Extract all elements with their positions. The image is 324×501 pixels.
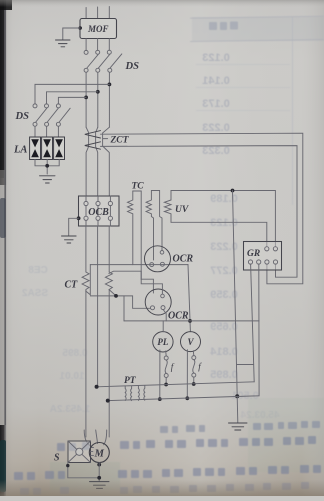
subtle teal tint patches	[248, 398, 324, 472]
wire incoming feeder L1 top	[85, 8, 87, 19]
wire MOF to DS1 pole3	[108, 39, 110, 51]
OCB upper contacts	[84, 201, 113, 205]
disconnect switch DS1 pole1	[84, 50, 98, 72]
lightning arrester LA2	[42, 137, 53, 160]
wire UV bottom to GR	[171, 222, 267, 246]
ZCT label dash	[103, 138, 108, 140]
svg-text:0.814: 0.814	[209, 346, 237, 358]
faint left side bleed	[22, 265, 280, 421]
node arrester bus	[45, 164, 49, 168]
wire L3 into motor	[104, 430, 107, 445]
svg-text:0.323: 0.323	[202, 145, 230, 157]
wire UV top to GR	[171, 191, 275, 247]
wire dot232 down to ground node	[233, 191, 238, 397]
fuse f2	[192, 351, 196, 384]
overcurrent relay OCR1	[145, 246, 171, 272]
CT zigzag on L1	[82, 272, 89, 437]
lightning arrester LA1	[30, 137, 41, 160]
svg-text:UV: UV	[175, 205, 189, 215]
wire CT3 top jog to H_B	[109, 271, 141, 273]
node fuse f1 on bus1	[164, 383, 168, 387]
OCB internal column wires	[86, 196, 110, 226]
disconnect switch DS2 pole2	[45, 104, 59, 126]
svg-text:1.453.2A: 1.453.2A	[50, 404, 91, 415]
wire L2 into motor	[96, 430, 98, 444]
wire ZCT secondary l to GR (bottom)	[101, 146, 298, 278]
CT zigzag on L3	[105, 272, 112, 437]
wire to ground G4	[236, 396, 239, 422]
ZCT chevron lower	[85, 142, 101, 149]
wire S bottom to M ground run	[68, 463, 99, 482]
ground OCB	[62, 236, 77, 243]
mirrored number column	[202, 52, 259, 402]
wire OCR2 bottom-right connector	[163, 310, 166, 321]
wire MOF case to ground	[63, 28, 80, 40]
wire MOF to DS1 pole1	[85, 39, 87, 51]
ZCT chevron upper	[85, 131, 101, 138]
svg-text:0.173: 0.173	[202, 98, 230, 110]
svg-text:0.659: 0.659	[210, 321, 238, 333]
wire PL top stub	[162, 321, 164, 332]
wire DS1 pole1 down	[85, 72, 87, 127]
ground LA	[40, 176, 56, 183]
wire GR relay box	[244, 242, 282, 271]
svg-text:ZCT: ZCT	[110, 136, 130, 146]
wire GR c2 down	[258, 264, 260, 396]
svg-text:V: V	[187, 337, 194, 347]
node bus1 at L2	[95, 385, 99, 389]
svg-text:SSA2: SSA2	[22, 288, 49, 299]
wire OCR1 right connector down to voltmeter	[188, 265, 190, 332]
PT winding w2	[130, 386, 133, 401]
wire incoming feeder L2 top	[97, 7, 99, 19]
PT winding w3	[137, 386, 140, 401]
wire CT3 secondary to bottom loop	[109, 290, 116, 296]
wire branch to DS2 pole3	[58, 97, 86, 104]
svg-text:GR: GR	[247, 249, 260, 259]
wire OCB pole3 down to CT	[108, 226, 110, 272]
GR top contacts	[265, 247, 269, 251]
wire bus1	[97, 382, 255, 387]
wire bus2	[108, 396, 259, 401]
node CT bottom loop	[114, 294, 118, 298]
svg-text:0.189: 0.189	[210, 193, 238, 205]
OCB lower contacts	[84, 216, 113, 220]
node branch L2	[96, 90, 100, 94]
wire OCB pole2 down	[97, 226, 99, 387]
wire DS2 pole2 to arrester	[46, 126, 48, 137]
wire DS1 pole3 down	[108, 72, 110, 127]
wire branch to DS2 pole2	[47, 92, 98, 104]
PT winding w4	[143, 386, 146, 401]
disconnect switch DS1 pole2	[96, 50, 110, 72]
coil C2	[146, 191, 162, 261]
wire OCB pole1 down to CT	[85, 226, 87, 272]
node UV top branch	[231, 189, 235, 193]
switch box S	[68, 441, 91, 463]
svg-text:OCR: OCR	[168, 311, 189, 322]
GR box	[244, 242, 282, 271]
svg-text:TC: TC	[132, 182, 145, 192]
svg-text:0.359: 0.359	[210, 289, 238, 301]
node bus2 at L3	[106, 399, 110, 403]
MOF metering outfit box	[80, 19, 117, 39]
wire connector to bus1 riser	[237, 364, 254, 366]
node M bottom	[97, 463, 101, 467]
svg-text:0.277: 0.277	[210, 265, 238, 277]
node fuse f2 on bus1	[192, 382, 196, 386]
wire H_B corner to OCR2 feed	[141, 279, 153, 293]
wire OCR2 feed2	[141, 271, 162, 294]
svg-text:LA: LA	[13, 145, 27, 156]
wire CT bottom loop	[90, 296, 150, 308]
svg-text:DS: DS	[15, 111, 30, 122]
svg-text:S: S	[54, 453, 60, 464]
OCB oil circuit breaker box	[79, 196, 120, 226]
trip coil TC	[128, 191, 142, 279]
svg-text:0.123: 0.123	[202, 52, 230, 64]
node PL return on bus2	[158, 397, 162, 401]
pilot lamp PL	[153, 332, 173, 352]
wire CT secondary horizontal A to OCR1	[90, 264, 188, 266]
svg-text:OCB: OCB	[88, 207, 109, 218]
svg-text:DS: DS	[125, 61, 140, 72]
svg-text:PL: PL	[157, 337, 168, 347]
wire DS2 pole1 to arrester	[34, 126, 36, 137]
svg-text:0.895: 0.895	[210, 369, 238, 381]
node OCB case terminal	[77, 216, 81, 220]
lightning arrester LA3	[54, 137, 65, 160]
wire branch to DS2 pole1	[35, 84, 109, 104]
ZCT primary pinch L1	[86, 127, 89, 196]
wire CT loop corner down to H_ocr	[123, 296, 125, 321]
node V tap on H_ocr	[188, 319, 192, 323]
wire CT1 secondary up path	[86, 265, 91, 295]
svg-text:10.01: 10.01	[59, 371, 84, 382]
wire V return to bus2	[186, 350, 188, 399]
ground G4	[229, 423, 248, 430]
wire H_ocr horizontal	[124, 320, 259, 322]
ZCT primary pinch L3	[103, 127, 110, 196]
undervoltage coil UV	[164, 191, 171, 223]
wire arrester bus	[35, 160, 59, 175]
wire DS2 pole3 to arrester	[57, 126, 59, 137]
svg-text:MOF: MOF	[87, 24, 109, 34]
ZCT primary pinch L2	[96, 127, 98, 196]
disconnect switch DS2 pole3	[56, 104, 70, 126]
node M ground junction	[97, 476, 101, 480]
svg-text:PT: PT	[124, 376, 137, 386]
svg-text:OCR: OCR	[173, 254, 194, 265]
svg-text:0.223: 0.223	[202, 122, 230, 134]
wire ZCT secondary k to GR (top)	[101, 133, 303, 284]
svg-text:M: M	[94, 449, 105, 460]
motor M	[89, 443, 109, 463]
wire S to M links	[91, 448, 94, 456]
wire L1 into motor	[84, 430, 90, 446]
wire MOF to DS1 pole2	[97, 39, 99, 51]
node branch L1	[84, 96, 88, 100]
svg-text:CT: CT	[65, 280, 79, 291]
svg-text:0.895: 0.895	[62, 348, 87, 359]
wire GR c1 to bus1	[251, 264, 255, 382]
wire DS1 pole2 down	[97, 72, 99, 127]
node branch L3	[108, 83, 112, 87]
bottom mirrored hangul-like text blobs	[160, 421, 320, 433]
labels layer	[13, 24, 260, 464]
ground G5 motor	[90, 482, 110, 489]
GR bottom contacts	[248, 260, 252, 264]
disconnect switch DS1 pole3	[107, 50, 122, 72]
disconnect switch DS2 pole1	[33, 104, 47, 126]
svg-text:CE8: CE8	[28, 265, 48, 276]
PT winding w1	[124, 386, 127, 401]
wire PL return to bus2	[159, 350, 161, 399]
svg-text:0.141: 0.141	[202, 75, 230, 87]
node V return on bus2	[185, 396, 189, 400]
node ground bus2	[235, 394, 239, 398]
wire OCB case to ground	[69, 218, 79, 235]
wire incoming feeder L3 top	[108, 7, 110, 19]
node S bottom	[66, 464, 69, 467]
faint table rules top right	[209, 22, 238, 31]
fuse f1	[164, 351, 168, 385]
overcurrent relay OCR2	[145, 289, 171, 315]
node MOF case terminal	[78, 26, 82, 30]
voltmeter V	[181, 332, 201, 352]
ground MOF case	[56, 40, 71, 47]
